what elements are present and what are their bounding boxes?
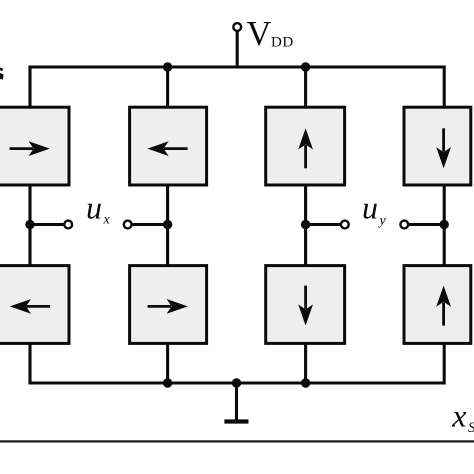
wire: u_y right stub [409,223,445,226]
wire: column 3 middle segment [304,183,307,268]
terminal: u_x left open circle [64,221,72,229]
wire: u_y left stub [306,223,341,226]
wire: column 2 stub from top rail to box [166,67,169,110]
wire: column 4 middle segment [443,183,446,268]
junction node column 2 / u_x [163,220,172,229]
figure caption separator rule [0,440,474,442]
ground symbol bar [224,419,248,423]
svg-text:S: S [468,420,474,436]
resistor R6 (bottom row col 2, arrow right) [130,266,207,344]
resistor R4 (top row col 4, arrow down) [404,107,471,185]
resistor R2 (top row col 2, arrow left) [130,107,207,185]
resistor R1 (top row col 1, arrow right) [0,107,69,185]
terminal: V_DD open circle [233,23,241,31]
terminal: u_x right open circle [124,221,132,229]
resistor R3 (top row col 3, arrow up) [266,107,345,185]
junction node column 4 / u_y [440,220,449,229]
svg-text:V: V [247,15,272,53]
svg-text:x: x [451,398,466,434]
resistor R5 (bottom row col 1, arrow left) [0,266,69,344]
wire: ground lead [235,383,238,420]
wire: column 1 middle segment [28,183,31,268]
junction node column 1 / u_x [25,220,34,229]
wire: top V_DD rail with corner drops to columns 1 and 4 [30,67,444,110]
wire: column 3 stub from box to bottom rail [304,341,307,383]
terminal: u_y left open circle [341,221,349,229]
wire: column 2 stub from box to bottom rail [166,341,169,383]
resistor R7 (bottom row col 3, arrow down) [266,266,345,344]
svg-text:x: x [103,213,111,228]
svg-text:DD: DD [271,34,294,50]
svg-text:u: u [86,190,102,226]
junction on bottom rail at column 3 [301,378,310,387]
resistor R8 (bottom row col 4, arrow up) [404,266,471,344]
terminal: u_y right open circle [400,221,408,229]
wire: u_x left stub [30,223,64,226]
junction on bottom rail at ground [232,378,241,387]
wire: V_DD terminal lead [236,31,239,69]
svg-text:u: u [362,190,378,226]
wire: u_x right stub [132,223,168,226]
svg-text:y: y [378,214,387,229]
wire: bottom rail with corner rises to columns 1 and 4 [30,341,444,383]
junction node column 3 / u_y [301,220,310,229]
junction on bottom rail at column 2 [163,378,172,387]
junction on top rail at column 2 [163,62,172,71]
wire: column 3 stub from top rail to box [304,67,307,110]
wire: column 2 middle segment [166,183,169,268]
clipped glyph fragment at left edge [0,68,4,80]
junction on top rail at column 3 [301,62,310,71]
